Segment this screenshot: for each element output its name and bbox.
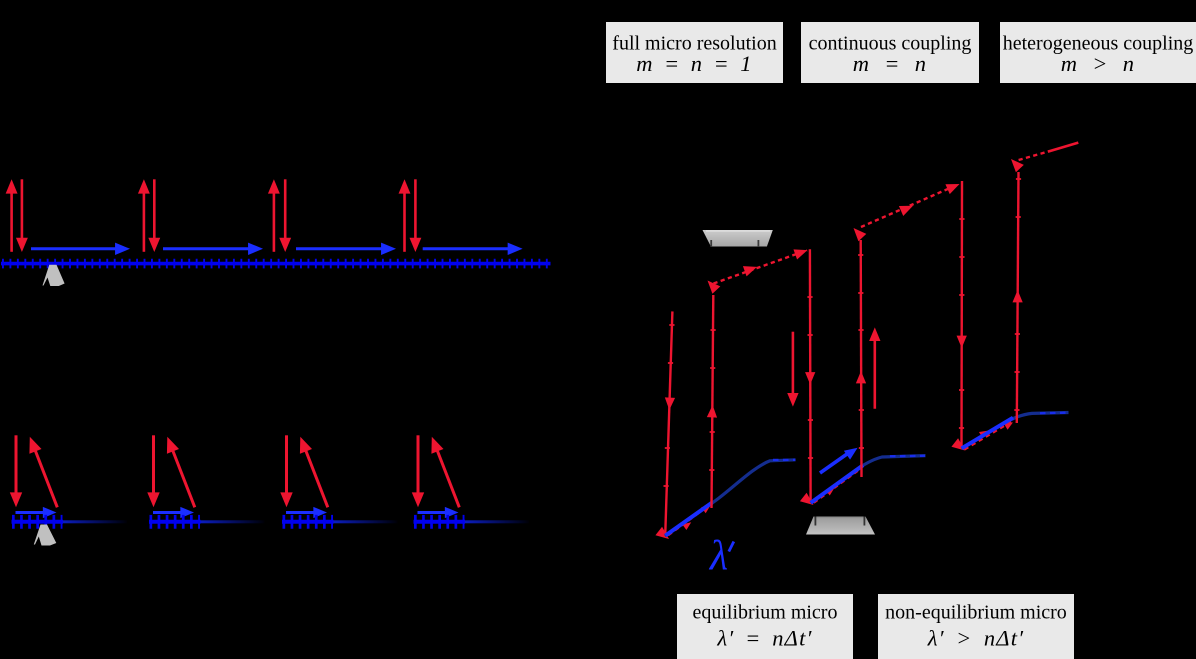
svg-text:λ: λ [708, 533, 728, 579]
svg-text:λ′ > nΔt′: λ′ > nΔt′ [927, 626, 1025, 651]
svg-text:m = n: m = n [853, 51, 928, 76]
svg-text:λ′ = nΔt′: λ′ = nΔt′ [716, 626, 812, 651]
svg-text:non-equilibrium micro: non-equilibrium micro [885, 602, 1067, 624]
svg-text:m > n: m > n [1061, 51, 1136, 76]
svg-text:m = n = 1: m = n = 1 [636, 51, 752, 76]
svg-text:equilibrium micro: equilibrium micro [693, 602, 838, 624]
